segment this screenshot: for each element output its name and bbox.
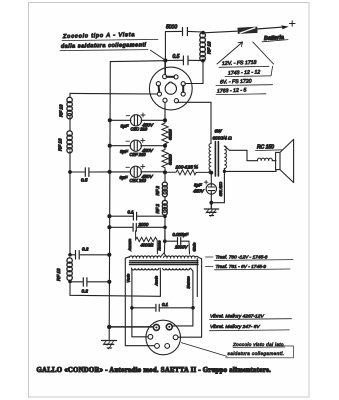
node A: junction above rectifier socket (163, 58, 167, 62)
wire: fuse to battery + terminal (257, 27, 286, 29)
wire: left riser between caps (164, 32, 166, 61)
pin 4 (181, 92, 185, 96)
svg-text:CEC 210: CEC 210 (131, 127, 148, 132)
pin 6 (163, 98, 167, 102)
electrolytic C2 8uF 450V (110, 138, 165, 157)
wire: junction down to socket pin 1 (164, 61, 166, 75)
T2 primary winding (209, 144, 211, 174)
wire: speaker return to ground (224, 170, 276, 172)
node: left column y172 (68, 170, 72, 174)
T1 secondary winding (bottom row) (132, 268, 159, 270)
capacitor 0.5 (buffer) (166, 54, 204, 65)
svg-text:RF 13: RF 13 (58, 138, 63, 151)
ground: main bus (102, 341, 117, 349)
svg-text:8μF: 8μF (121, 124, 130, 129)
capacitor 0.2 (lower) (70, 278, 109, 294)
node: T2 primary bottom (209, 171, 213, 175)
svg-text:Verde: Verde (127, 274, 131, 283)
svg-text:0.5: 0.5 (81, 178, 88, 183)
wire: T1 secondary left lead (132, 268, 148, 337)
vibrator socket (146, 320, 181, 355)
svg-text:Giallo: Giallo (192, 242, 196, 251)
resistor R1 (dropper) (162, 122, 173, 149)
node: choke L3 top (68, 253, 72, 257)
pin 1 (163, 75, 167, 79)
T2 core (215, 142, 218, 177)
node: bus junctions (107, 118, 112, 329)
pin 3 (mid-left) (148, 334, 153, 339)
wire: T2 secondary bottom to ground (211, 168, 224, 202)
wire: T1 primary right stub (196, 259, 198, 297)
pin 4 (mid-right) (173, 335, 178, 340)
speaker (276, 139, 294, 182)
capacitor 2000pF (109, 222, 165, 231)
wire: T1 primary right lead (178, 257, 202, 338)
svg-text:Marrone: Marrone (187, 276, 191, 288)
wire: 2000pF junction down (163, 227, 166, 253)
svg-text:5000: 5000 (166, 25, 177, 31)
pin 2 (174, 75, 178, 79)
capacitor 0.5 (heater bypass) (70, 168, 110, 183)
svg-text:RF 2: RF 2 (155, 204, 160, 214)
svg-text:RF 2: RF 2 (155, 186, 160, 196)
wire: choke bottom to socket pin 3 (185, 61, 203, 84)
label: Trasf 780 (206, 255, 294, 261)
svg-text:1763 - 12 - 5: 1763 - 12 - 5 (217, 88, 247, 95)
wire: bar pins 1-2 (167, 76, 174, 78)
electrolytic C3 8uF 450V (110, 164, 165, 183)
svg-text:0.2: 0.2 (82, 289, 89, 294)
svg-text:0.5: 0.5 (173, 54, 180, 60)
node: dropper chain junctions (163, 118, 167, 122)
pin 7 (157, 92, 161, 96)
wire: bar pins 3-4 (182, 86, 184, 92)
svg-text:6W: 6W (215, 128, 223, 133)
rectifier socket (zoccolo tipo A) (149, 67, 192, 110)
svg-text:3W/15: 3W/15 (169, 153, 173, 165)
output transformer T2 (209, 128, 232, 176)
label: fuse table (216, 60, 273, 95)
choke RF2 (lower) (155, 197, 168, 241)
pin 8 (156, 82, 160, 86)
choke RF13 (battery filter) (200, 31, 212, 63)
svg-text:Vibrat. Mallory 247- 6V: Vibrat. Mallory 247- 6V (210, 324, 260, 330)
svg-text:0.2: 0.2 (82, 247, 89, 252)
svg-text:Anodo: Anodo (155, 276, 159, 287)
svg-text:CEV 210: CEV 210 (218, 182, 222, 196)
svg-text:450V: 450V (193, 188, 205, 193)
wire: socket pin 6 down to dropping resistors (164, 102, 166, 121)
T2 secondary winding (224, 146, 226, 169)
node: choke L3 bottom (68, 280, 72, 284)
svg-text:4000/2: 4000/2 (141, 242, 154, 247)
label: Batteria (262, 35, 288, 42)
node: ground junction under T2 (209, 201, 213, 205)
wire: T1 primary left lead (to vibrator) (125, 257, 154, 346)
wire: junction to ground bus (110, 60, 165, 63)
svg-text:0.025μF: 0.025μF (173, 232, 189, 237)
svg-text:RF 13: RF 13 (56, 268, 61, 281)
wire: secondary top to voice coil (224, 146, 257, 161)
svg-text:RC 150: RC 150 (257, 145, 274, 151)
choke RF13 L2 (58, 131, 73, 153)
capacitor 0.2 (upper) (70, 247, 109, 259)
svg-text:100-125 ½: 100-125 ½ (176, 164, 199, 170)
svg-text:12V. - FS 1718: 12V. - FS 1718 (222, 60, 257, 67)
capacitor 5000pF (166, 25, 204, 36)
wire: battery feed from choke to fuse (203, 31, 237, 33)
svg-text:0.1: 0.1 (128, 209, 135, 214)
node: T1 center tap caret (161, 253, 167, 257)
svg-text:6000/4 Ω: 6000/4 Ω (213, 135, 233, 140)
fuse F1 (238, 27, 257, 33)
leader lines: fuse callout (217, 42, 243, 64)
svg-text:CEF 210: CEF 210 (130, 152, 147, 157)
voice coil RC150 (256, 145, 282, 161)
ground: output stage (204, 203, 218, 217)
svg-text:RF 13: RF 13 (59, 104, 64, 117)
resistor 4000/2 (riserva) (128, 231, 162, 254)
svg-text:CEX 210: CEX 210 (130, 178, 147, 183)
label: Trasf 781 (206, 264, 291, 270)
svg-text:2000: 2000 (138, 222, 149, 227)
svg-text:0.1: 0.1 (162, 302, 169, 307)
svg-text:Zoccolo visto dal lato: Zoccolo visto dal lato (232, 342, 284, 347)
wire: socket pin 7 to left filter column (70, 92, 157, 95)
wire: bus to vibrator pin (thick) (109, 326, 153, 328)
svg-text:1743 - 12 - 12: 1743 - 12 - 12 (228, 69, 261, 76)
svg-text:RF 13: RF 13 (207, 41, 212, 54)
label: Vibrat Mallory 12V (210, 314, 292, 320)
svg-text:saldatura collegamenti.: saldatura collegamenti. (228, 351, 285, 356)
wire: bar pins 7-8 (158, 86, 161, 92)
wire: T1 secondary right lead (massa) (172, 268, 193, 326)
svg-text:2000V: 2000V (174, 245, 189, 250)
svg-text:8μF: 8μF (194, 182, 202, 187)
wire: socket pin 5 to output transformer primary (177, 102, 211, 143)
pin 3 (181, 82, 185, 86)
resistor 100-125 ohm 1/2W (165, 164, 211, 175)
note: zoccolo visto annotation (226, 342, 294, 358)
choke RF13 L1 (59, 97, 73, 119)
pin 1 (top-left, keyed) (153, 324, 159, 330)
capacitor 0.025uF 2000V (buffer) (165, 232, 197, 254)
pin 2 (top-right, keyed) (166, 324, 172, 330)
svg-text:8μF: 8μF (120, 149, 129, 154)
wire: T2 primary bottom down (210, 173, 212, 184)
T1 core (130, 261, 199, 265)
leader: socket note (181, 343, 227, 357)
node: battery plus (290, 21, 296, 26)
node: RF2 chain junctions (163, 214, 167, 218)
pin 5 (174, 99, 178, 103)
power transformer T1 (129, 253, 198, 270)
choke RF13 L3 (56, 258, 72, 281)
svg-text:Rosso: Rosso (158, 241, 162, 251)
capacitor 0.1 (vibrator) (132, 302, 193, 312)
svg-text:3W/15: 3W/15 (169, 128, 173, 140)
svg-text:6V. - FS 1720: 6V. - FS 1720 (220, 78, 252, 85)
svg-text:Azzurro: Azzurro (128, 239, 132, 252)
label: Vibrat Mallory 6V (210, 324, 290, 331)
wire: ground bus (109, 62, 110, 340)
T1 primary winding (top row) (129, 256, 161, 257)
pin 6 (bottom-right) (165, 344, 170, 349)
note: zoccolo tipo A annotation (60, 32, 164, 59)
choke RF2 (upper) (155, 172, 168, 197)
resistor R2 (dropper) (162, 149, 173, 173)
pin 5 (bottom-left) (155, 344, 160, 349)
capacitor 0.1 (hash filter) (109, 209, 165, 220)
wire: B+ filter column left (70, 93, 160, 296)
svg-text:GALLO «CONDOR» - Autoradio mod: GALLO «CONDOR» - Autoradio mod. SAETTA I… (37, 367, 272, 374)
svg-text:8μF: 8μF (120, 175, 129, 180)
electrolytic 8uF 450V (cathode) (193, 180, 222, 202)
node: secondary bottom speaker tap (223, 170, 226, 173)
wire: T1 secondary centre lead (anodo) (159, 268, 161, 296)
node: 0.1 cap ends (130, 306, 134, 310)
electrolytic C1 8uF 450V (110, 113, 165, 132)
